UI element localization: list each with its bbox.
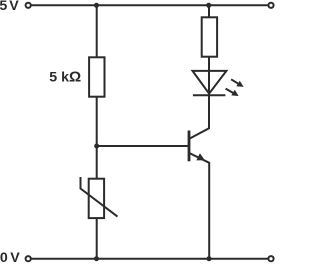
svg-text:V: V [10,250,20,264]
svg-text:5: 5 [0,0,7,14]
svg-text:0: 0 [0,250,8,264]
svg-text:5 k: 5 k [49,69,69,85]
svg-text:V: V [9,0,19,14]
svg-text:Ω: Ω [69,68,81,85]
